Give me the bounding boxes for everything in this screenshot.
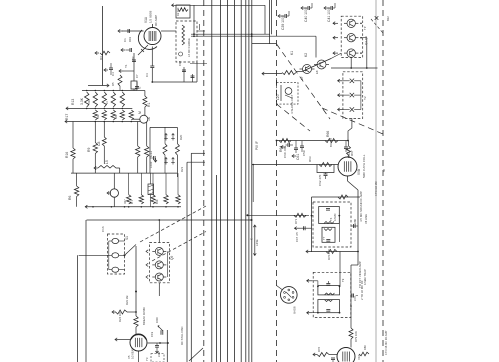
- svg-text:C7: C7: [135, 74, 139, 78]
- svg-text:C4: C4: [111, 72, 115, 76]
- svg-text:BOOST: BOOST: [329, 138, 333, 147]
- svg-text:V8 LINE: V8 LINE: [364, 214, 368, 224]
- svg-text:T6: T6: [329, 217, 333, 221]
- svg-text:TP: TP: [363, 26, 367, 30]
- svg-text:T9: T9: [341, 278, 345, 282]
- svg-text:1600: 1600: [155, 317, 159, 323]
- svg-text:C59: C59: [302, 150, 306, 156]
- svg-text:C40 1000: C40 1000: [304, 7, 308, 22]
- svg-text:V5: V5: [127, 355, 131, 359]
- svg-text:1/2 6EA8: 1/2 6EA8: [131, 348, 135, 359]
- svg-text:R91: R91: [128, 36, 132, 42]
- svg-text:330: 330: [115, 114, 118, 119]
- svg-text:R7: R7: [130, 200, 134, 204]
- svg-text:4.5 MC SOUND IF AMP: 4.5 MC SOUND IF AMP: [359, 191, 363, 222]
- svg-text:V9B: V9B: [357, 169, 361, 175]
- svg-text:R21: R21: [180, 166, 184, 172]
- svg-text:C39 1000: C39 1000: [281, 15, 285, 30]
- svg-text:C1: C1: [123, 38, 127, 42]
- svg-text:R23 1M: R23 1M: [125, 295, 129, 305]
- svg-text:6HS8: 6HS8: [293, 306, 297, 314]
- svg-text:3.3K: 3.3K: [80, 97, 84, 105]
- svg-text:RF STAL OSC: RF STAL OSC: [180, 326, 184, 345]
- svg-text:LINE: LINE: [255, 239, 259, 246]
- svg-text:1K: 1K: [147, 116, 151, 121]
- svg-text:2 TO 36 MC RF: 2 TO 36 MC RF: [360, 280, 364, 300]
- svg-text:C16: C16: [101, 226, 105, 232]
- svg-text:C11: C11: [149, 151, 153, 157]
- svg-text:R17: R17: [65, 114, 69, 120]
- svg-text:E8: E8: [315, 70, 319, 74]
- svg-text:C60 .001: C60 .001: [283, 145, 287, 158]
- svg-text:PIX IF: PIX IF: [255, 141, 259, 150]
- svg-text:T7: T7: [322, 236, 326, 240]
- svg-text:R66: R66: [326, 131, 330, 137]
- svg-text:C110: C110: [149, 161, 153, 168]
- svg-text:R76: R76: [317, 346, 321, 352]
- svg-text:C67 .05: C67 .05: [295, 232, 299, 242]
- svg-text:S: S: [250, 238, 254, 240]
- svg-text:L5: L5: [105, 160, 109, 164]
- svg-text:R16: R16: [65, 152, 69, 158]
- svg-text:S1: S1: [125, 236, 129, 240]
- svg-text:R63: R63: [308, 156, 312, 162]
- svg-text:C41 1000: C41 1000: [327, 7, 331, 22]
- svg-text:R24 10K: R24 10K: [118, 311, 122, 322]
- svg-text:R8: R8: [155, 200, 159, 204]
- svg-text:M: M: [138, 111, 142, 114]
- svg-text:K1: K1: [290, 51, 294, 55]
- svg-text:C92: C92: [178, 60, 182, 66]
- svg-text:4 SLOPE DET: 4 SLOPE DET: [290, 94, 294, 114]
- svg-text:1/2 6BS8: 1/2 6BS8: [149, 10, 153, 23]
- svg-text:C66: C66: [353, 219, 357, 224]
- svg-text:1K: 1K: [106, 101, 109, 104]
- svg-text:K2: K2: [304, 53, 308, 57]
- svg-text:Q9: Q9: [170, 256, 174, 260]
- svg-text:4.5MC: 4.5MC: [333, 213, 337, 221]
- svg-text:5MC CATH FOLL: 5MC CATH FOLL: [362, 154, 366, 178]
- svg-text:C62 470: C62 470: [318, 174, 322, 186]
- svg-text:R71: R71: [294, 218, 298, 224]
- svg-text:RF AMP: RF AMP: [154, 15, 158, 26]
- svg-text:R67: R67: [350, 150, 354, 156]
- svg-text:Y1: Y1: [124, 64, 128, 68]
- svg-text:R6: R6: [68, 196, 72, 200]
- svg-text:R3: R3: [99, 56, 103, 60]
- svg-text:Q2 Q3: Q2 Q3: [364, 36, 368, 45]
- svg-text:E7: E7: [300, 76, 304, 80]
- svg-text:Y2: Y2: [363, 96, 367, 100]
- svg-text:C8: C8: [97, 142, 101, 146]
- svg-text:R80: R80: [363, 345, 367, 350]
- svg-text:R20: R20: [179, 134, 183, 140]
- svg-text:R5: R5: [111, 82, 115, 86]
- svg-text:C18: C18: [157, 352, 161, 357]
- svg-text:C3: C3: [145, 73, 149, 77]
- svg-text:B22: B22: [386, 16, 390, 21]
- svg-text:V1A: V1A: [144, 16, 148, 23]
- svg-text:L20: L20: [276, 94, 280, 100]
- svg-text:R2 150: R2 150: [176, 7, 180, 16]
- svg-text:R9: R9: [87, 148, 91, 152]
- svg-text:R10: R10: [88, 99, 91, 104]
- svg-text:C61: C61: [296, 154, 300, 160]
- svg-text:B3: B3: [131, 56, 135, 60]
- svg-text:BREAK IN 56K: BREAK IN 56K: [142, 307, 146, 325]
- svg-text:R11: R11: [97, 114, 100, 119]
- svg-text:R79 10K: R79 10K: [354, 331, 358, 342]
- svg-text:R13: R13: [71, 99, 75, 105]
- svg-text:R27: R27: [124, 199, 127, 204]
- svg-text:L6 RF CHOKE: L6 RF CHOKE: [187, 38, 191, 57]
- svg-text:C19: C19: [150, 331, 154, 337]
- svg-text:R74 2.2K: R74 2.2K: [327, 249, 331, 260]
- svg-text:Y3: Y3: [145, 357, 149, 361]
- svg-text:R1: R1: [147, 103, 151, 107]
- svg-text:4 TO 3.6 MC: 4 TO 3.6 MC: [374, 181, 378, 196]
- svg-text:C72: C72: [353, 296, 357, 301]
- svg-text:4 TO 36 MC RF AMP: 4 TO 36 MC RF AMP: [384, 330, 388, 355]
